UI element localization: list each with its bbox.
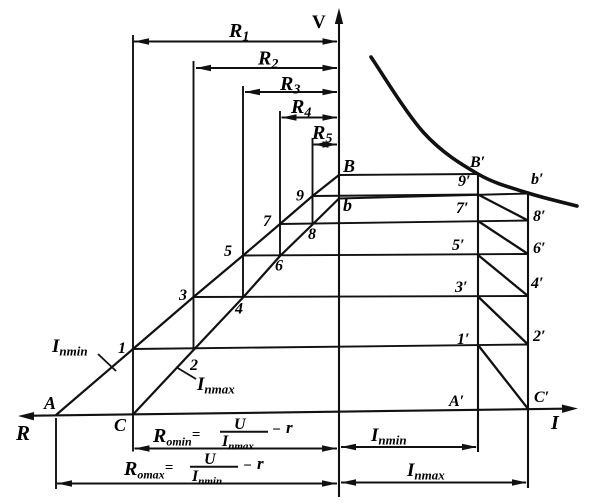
Inmin characteristic line A-B [56,175,339,415]
svg-text:8: 8 [308,226,316,243]
vertical through C,1 (R1 extension) [132,35,134,452]
svg-text:5′: 5′ [452,237,465,254]
vertical Inmin line B'-A' [477,174,479,453]
svg-text:3′: 3′ [454,279,468,296]
svg-text:b′: b′ [531,171,544,188]
diagonal 5'-4' [478,255,528,296]
diagonal 9'-8' [478,195,528,221]
svg-text:4′: 4′ [530,275,544,292]
dimension line R2 [196,65,338,72]
vertical through 6,7 (R4 extension) [279,111,281,256]
svg-text:6: 6 [275,258,283,275]
dimension line Romax [57,480,337,487]
horizontal 3-4' [194,296,529,297]
svg-text:3: 3 [178,287,187,304]
svg-text:U: U [204,451,217,468]
svg-text:1: 1 [118,340,126,357]
vertical Inmax line b'-C' [527,193,529,488]
svg-text:2′: 2′ [532,328,546,345]
dimension line Romin [135,445,338,452]
svg-text:8′: 8′ [533,208,546,225]
natural characteristic curve [371,57,577,206]
svg-text:C′: C′ [534,389,549,406]
dimension line R3 [245,89,338,96]
horizontal 5-6' [243,254,528,256]
svg-text:−: − [272,422,281,438]
horizontal 1-2' [133,345,528,350]
V axis [335,8,343,497]
svg-text:B′: B′ [469,154,485,171]
vertical through 8,9 (R5 extension) [312,138,314,225]
horizontal B-B' [339,174,478,175]
svg-text:r: r [286,418,293,437]
extension tick at A [55,418,57,489]
leader for Inmin label [98,354,116,371]
svg-text:A′: A′ [448,393,464,410]
svg-text:A: A [43,393,56,413]
dimension line Inmin (bottom) [341,444,477,451]
svg-text:−: − [243,458,252,474]
svg-text:4: 4 [234,301,243,318]
svg-text:b: b [343,195,352,215]
svg-text:I: I [550,412,560,434]
diagonal 1'-C' [478,345,528,409]
horizontal 7-8' [280,221,528,225]
Inmax characteristic line C-b [133,199,339,415]
svg-text:9′: 9′ [458,173,471,190]
horizontal 9-9' [313,195,479,197]
diagonal 7'-6' [478,221,528,254]
horizontal b-b' [339,194,528,199]
dimension line Inmax (bottom) [341,479,527,486]
svg-text:5: 5 [224,243,232,260]
dimension line R4 [282,114,338,121]
diagonal 3'-2' [478,297,528,345]
dimension line R5 [314,141,338,148]
vertical through 4,5 (R3 extension) [242,86,244,298]
dimension line R1 [134,38,338,45]
svg-text:U: U [234,416,247,433]
svg-text:C: C [114,415,127,435]
svg-text:V: V [312,12,326,33]
svg-text:7: 7 [263,213,272,230]
svg-text:r: r [257,454,264,473]
svg-text:B: B [342,156,355,176]
x axis (R-I axis) [18,405,578,421]
vertical through 2,3 (R2 extension) [193,61,195,350]
svg-text:9: 9 [296,188,304,205]
svg-text:R: R [15,421,30,445]
svg-text:2: 2 [189,357,198,374]
svg-text:6′: 6′ [533,240,546,257]
svg-text:1′: 1′ [457,331,470,348]
svg-text:7′: 7′ [456,200,469,217]
leader for Inmax label [176,367,196,379]
